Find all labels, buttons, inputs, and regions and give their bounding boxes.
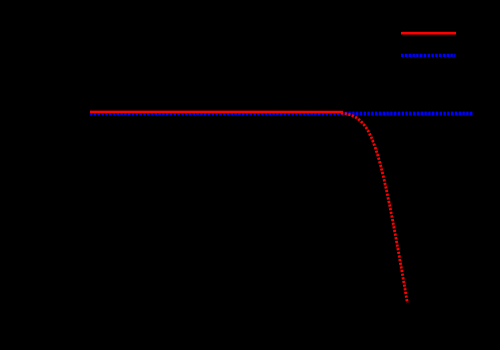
legend blue dashed line sample — [401, 54, 456, 57]
legend red line sample — [401, 32, 456, 35]
red curve flat solid segment — [90, 111, 343, 113]
blue dashed horizontal line (limit value) — [90, 112, 474, 116]
red curve dotted steep tail — [341, 113, 407, 303]
